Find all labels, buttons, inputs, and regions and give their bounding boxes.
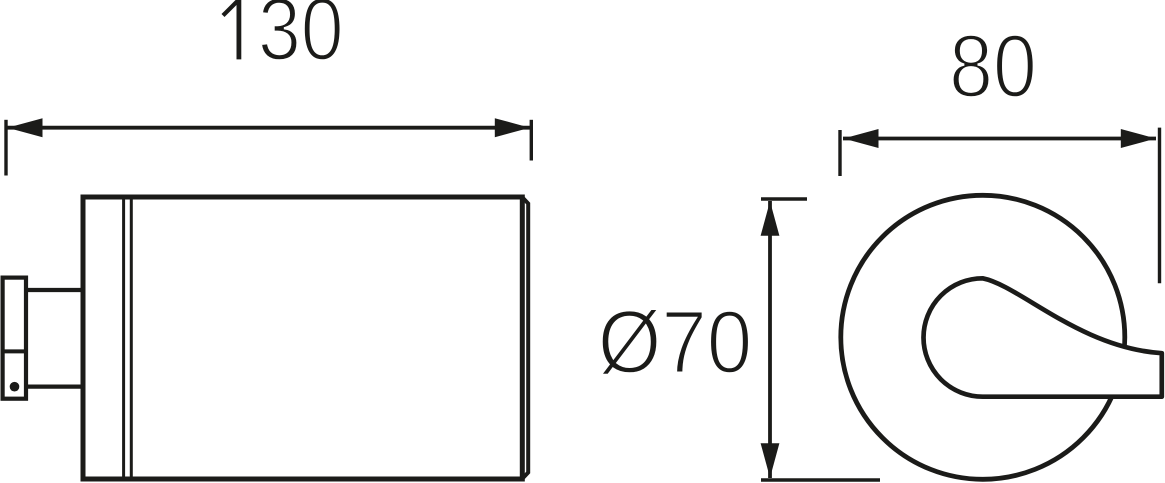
dimension D70 down arrowhead xyxy=(761,443,780,478)
dimension D70 up arrowhead xyxy=(761,201,780,236)
front view outer circle xyxy=(841,195,1125,479)
bracket lower arm xyxy=(26,384,83,388)
dimension 80 right extension line xyxy=(1158,128,1161,284)
side view body rectangle xyxy=(83,197,522,479)
bracket upper arm xyxy=(26,288,83,292)
dimension D70 line xyxy=(768,201,772,478)
side view rear depth edge xyxy=(522,197,528,479)
dimension 130 right extension line xyxy=(530,120,533,161)
wall bracket screw hole xyxy=(10,382,20,392)
dimension D70 top extension line xyxy=(761,197,807,200)
dimension 130 right arrowhead xyxy=(495,118,530,137)
svg-text:80: 80 xyxy=(949,16,1037,116)
front view bracket arm xyxy=(923,278,1161,396)
dimension 80 left extension line xyxy=(838,130,841,176)
svg-text:30: 30 xyxy=(258,0,344,79)
dimension 80 left arrowhead xyxy=(844,129,879,148)
dimension 80 right arrowhead xyxy=(1121,129,1156,148)
dimension D70 bottom extension line xyxy=(761,478,880,481)
dimension 130 left arrowhead xyxy=(8,118,43,137)
dimension 130 left extension line xyxy=(4,120,7,176)
side view groove line 1 xyxy=(122,200,125,477)
svg-text:Ø70: Ø70 xyxy=(598,292,753,392)
wall bracket plate xyxy=(3,278,26,399)
dimension 130 line xyxy=(7,126,530,130)
dimension 80 line xyxy=(843,137,1156,141)
side view groove line 2 xyxy=(130,200,133,477)
dimension 130 label digit 1 xyxy=(236,0,241,59)
wall bracket divider line xyxy=(1,349,27,353)
